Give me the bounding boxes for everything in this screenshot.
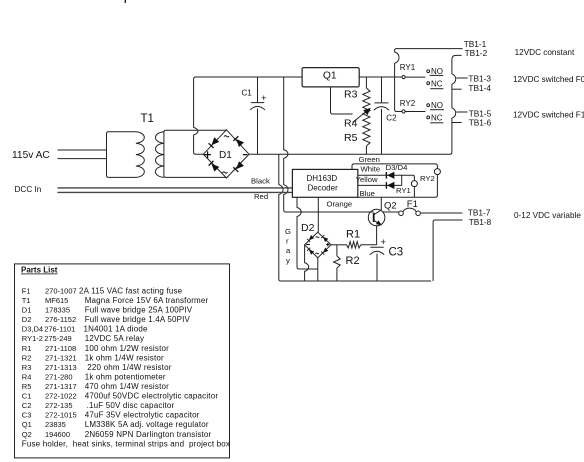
svg-text:2N6059 NPN Darlington transist: 2N6059 NPN Darlington transistor xyxy=(85,430,212,439)
svg-text:276-1152: 276-1152 xyxy=(45,315,76,324)
svg-text:178335: 178335 xyxy=(45,306,70,315)
svg-text:Q2: Q2 xyxy=(384,201,397,212)
svg-text:F1: F1 xyxy=(22,287,31,296)
svg-text:276-1101: 276-1101 xyxy=(44,325,75,334)
svg-text:220 ohm 1/4W resistor: 220 ohm 1/4W resistor xyxy=(87,363,171,372)
transistor Q2 xyxy=(368,197,396,226)
svg-text:275-249: 275-249 xyxy=(44,334,72,343)
svg-text:D3,D4: D3,D4 xyxy=(22,325,43,334)
wire green to RY2 coil xyxy=(352,164,437,170)
svg-text:r: r xyxy=(286,237,289,246)
svg-text:TB1-3: TB1-3 xyxy=(468,74,491,84)
svg-text:Full wave bridge 1.4A 50PIV: Full wave bridge 1.4A 50PIV xyxy=(85,315,191,324)
wire TB1-3 xyxy=(456,77,467,79)
svg-text:R2: R2 xyxy=(346,255,360,267)
svg-text:C3: C3 xyxy=(22,411,32,420)
svg-text:R3: R3 xyxy=(22,363,32,372)
svg-text:271-1313: 271-1313 xyxy=(45,363,77,372)
svg-text:R1: R1 xyxy=(22,344,32,353)
svg-text:White: White xyxy=(361,165,381,174)
svg-text:RY1: RY1 xyxy=(396,186,411,195)
regulator Q1 xyxy=(302,68,359,87)
wire TB1-5 xyxy=(456,111,467,113)
svg-text:47uF 35V electrolytic capacito: 47uF 35V electrolytic capacitor xyxy=(85,411,200,420)
svg-text:12VDC switched F1: 12VDC switched F1 xyxy=(513,111,584,120)
wire 12V feed to TB1-1 and RY2 common (with loop) xyxy=(395,49,463,112)
svg-text:Black: Black xyxy=(251,176,270,185)
svg-text:+: + xyxy=(261,93,267,104)
resistor R2 xyxy=(334,245,360,281)
svg-text:2A 115 VAC fast acting fuse: 2A 115 VAC fast acting fuse xyxy=(79,287,183,296)
svg-text:NO: NO xyxy=(431,101,443,110)
svg-text:Orange: Orange xyxy=(327,200,353,209)
bridge rectifier D2 xyxy=(305,232,331,258)
svg-text:Red: Red xyxy=(254,192,268,201)
svg-text:12VDC switched F0: 12VDC switched F0 xyxy=(513,75,584,84)
wire Q1 output rail xyxy=(359,76,402,78)
svg-text:Q1: Q1 xyxy=(22,420,32,429)
svg-text:TB1-6: TB1-6 xyxy=(469,118,492,128)
svg-text:272-1015: 272-1015 xyxy=(45,411,77,420)
svg-text:+: + xyxy=(381,237,387,248)
svg-text:Fuse holder, heat sinks, term: Fuse holder, heat sinks, terminal strips… xyxy=(22,439,230,448)
svg-text:D1: D1 xyxy=(22,306,32,315)
svg-text:a: a xyxy=(286,246,291,255)
svg-text:272-1022: 272-1022 xyxy=(45,392,77,401)
svg-text:TB1-8: TB1-8 xyxy=(469,217,492,227)
svg-text:23835: 23835 xyxy=(45,420,66,429)
svg-text:R2: R2 xyxy=(22,353,32,362)
svg-text:D1: D1 xyxy=(219,150,232,161)
wire raw rail down to orange (hops over ground, DCC) xyxy=(284,77,371,212)
wire TB1-6 xyxy=(452,122,462,124)
svg-text:1k ohm 1/4W resistor: 1k ohm 1/4W resistor xyxy=(85,353,164,362)
svg-text:4700uf 50VDC electrolytic capa: 4700uf 50VDC electrolytic capacitor xyxy=(85,392,219,401)
svg-text:y: y xyxy=(286,256,290,265)
wire AC input leads xyxy=(58,150,107,159)
svg-text:271-1317: 271-1317 xyxy=(45,382,77,391)
svg-text:C1: C1 xyxy=(242,89,253,98)
svg-text:1N4001 1A diode: 1N4001 1A diode xyxy=(84,325,148,334)
svg-text:TB1-2: TB1-2 xyxy=(465,48,488,58)
svg-text:.1uF 50V disc capacitor: .1uF 50V disc capacitor xyxy=(87,401,175,410)
bridge rectifier D1 xyxy=(203,130,249,178)
svg-text:270-1007: 270-1007 xyxy=(45,287,77,296)
svg-text:RY1: RY1 xyxy=(400,63,416,72)
wire Q2 emitter output to fuse xyxy=(383,211,399,213)
svg-text:Green: Green xyxy=(359,155,380,164)
svg-text:115v AC: 115v AC xyxy=(12,150,50,161)
capacitor C2 xyxy=(374,77,397,154)
wire RY1 coil to blue xyxy=(413,187,415,198)
svg-text:0-12 VDC variable: 0-12 VDC variable xyxy=(514,211,581,220)
svg-text:G: G xyxy=(285,227,291,236)
resistor chain R3 R4 R5 xyxy=(344,77,371,154)
wire D2 bottom corner drop xyxy=(317,258,319,281)
svg-text:271-1321: 271-1321 xyxy=(45,353,77,362)
svg-text:100 ohm 1/2W resistor: 100 ohm 1/2W resistor xyxy=(85,344,169,353)
svg-text:RY2: RY2 xyxy=(400,99,416,108)
wire white xyxy=(358,175,415,180)
svg-text:272-135: 272-135 xyxy=(45,401,73,410)
svg-text:1k ohm potentiometer: 1k ohm potentiometer xyxy=(85,372,166,381)
capacitor C3 xyxy=(370,237,403,281)
relay contacts RY2 xyxy=(400,99,444,123)
svg-text:R4: R4 xyxy=(22,372,32,381)
svg-text:R5: R5 xyxy=(22,382,32,391)
svg-text:F1: F1 xyxy=(407,199,418,210)
svg-text:C2: C2 xyxy=(386,114,397,123)
wire TB1-4 xyxy=(452,88,462,90)
wire TB1-8 to ground rail xyxy=(433,220,462,281)
wire yellow xyxy=(358,184,402,186)
DCC input pair xyxy=(58,188,293,193)
relay coil RY2 xyxy=(434,169,440,175)
svg-text:470 ohm 1/4W resistor: 470 ohm 1/4W resistor xyxy=(85,382,169,391)
relay coil RY1 xyxy=(411,181,417,187)
svg-text:194600: 194600 xyxy=(45,430,70,439)
svg-text:12VDC 5A relay: 12VDC 5A relay xyxy=(85,334,144,343)
svg-text:DH163D: DH163D xyxy=(307,174,338,183)
svg-text:DCC In: DCC In xyxy=(15,185,42,194)
svg-text:NO: NO xyxy=(431,67,443,76)
parts list rows xyxy=(22,287,230,449)
svg-text:Q1: Q1 xyxy=(323,70,337,81)
svg-text:NC: NC xyxy=(431,79,443,88)
svg-text:NC: NC xyxy=(431,113,443,122)
svg-text:271-280: 271-280 xyxy=(45,372,73,381)
diode D4 xyxy=(386,182,394,189)
transformer T1 primary xyxy=(107,132,145,178)
svg-text:D3/D4: D3/D4 xyxy=(386,163,409,172)
svg-text:12VDC constant: 12VDC constant xyxy=(515,48,575,57)
svg-text:D2: D2 xyxy=(301,222,315,234)
svg-text:R5: R5 xyxy=(344,132,358,144)
label Gray vertical xyxy=(285,227,291,265)
terminal labels TB1-1..TB1-6 xyxy=(464,39,492,128)
resistor R1 xyxy=(331,229,377,248)
svg-text:Q2: Q2 xyxy=(22,430,32,439)
wire D2 left corner to bottom rail (hops gray return) xyxy=(305,245,309,281)
output labels xyxy=(513,48,584,220)
wire RY2 coil to blue line xyxy=(358,175,438,198)
wire D1 + output to raw rail (hop over AC lead) xyxy=(194,77,303,154)
svg-text:Magna Force 15V 6A transformer: Magna Force 15V 6A transformer xyxy=(85,296,209,305)
svg-text:D2: D2 xyxy=(22,315,32,324)
svg-text:RY1-2: RY1-2 xyxy=(22,334,43,343)
svg-text:R3: R3 xyxy=(344,89,358,101)
wire TB bus with hops and TB1-2 tail xyxy=(450,55,462,154)
svg-text:Blue: Blue xyxy=(360,189,375,198)
wire ground line xyxy=(249,153,450,155)
svg-text:C1: C1 xyxy=(22,392,32,401)
wire white-yellow junction link xyxy=(401,175,403,185)
fuse F1 xyxy=(399,199,421,216)
capacitor C1 xyxy=(242,77,268,154)
terminal labels TB1-7 TB1-8 xyxy=(468,207,492,227)
decoder DH163D xyxy=(292,169,357,197)
transformer T1 secondary xyxy=(156,130,227,177)
wire orange drop from decoder to D2 top xyxy=(317,197,319,232)
parts list box xyxy=(15,264,230,458)
svg-text:C3: C3 xyxy=(389,247,404,259)
svg-text:T1: T1 xyxy=(141,113,154,125)
svg-text:Decoder: Decoder xyxy=(308,184,339,193)
svg-text:TB1-7: TB1-7 xyxy=(468,207,491,217)
svg-text:MF615: MF615 xyxy=(45,296,68,305)
svg-text:Full wave bridge 25A 100PIV: Full wave bridge 25A 100PIV xyxy=(85,306,193,315)
svg-text:Yellow: Yellow xyxy=(356,175,378,184)
stray mark top edge xyxy=(124,0,126,3)
svg-text:Parts List: Parts List xyxy=(21,266,58,275)
svg-text:TB1-4: TB1-4 xyxy=(468,83,491,93)
svg-text:C2: C2 xyxy=(22,401,32,410)
svg-text:271-1108: 271-1108 xyxy=(45,344,76,353)
svg-text:T1: T1 xyxy=(22,296,31,305)
svg-text:RY2: RY2 xyxy=(420,174,435,183)
svg-text:R1: R1 xyxy=(346,229,360,241)
svg-text:R4: R4 xyxy=(344,118,358,130)
wire gray (hops orange) then to D2 bottom xyxy=(297,197,318,269)
diode D3 xyxy=(386,172,394,179)
svg-text:LM338K 5A adj. voltage regula: LM338K 5A adj. voltage regulator xyxy=(85,420,209,429)
relay contacts RY1 xyxy=(400,63,444,89)
wire Q1 adj to R4 wiper xyxy=(331,87,353,114)
wire ground left drop and bottom rail (hops DCC) xyxy=(279,154,431,281)
wire F1 to TB1-7 xyxy=(420,212,462,214)
wire Q2 emitter down to R1/C3 xyxy=(376,226,378,245)
